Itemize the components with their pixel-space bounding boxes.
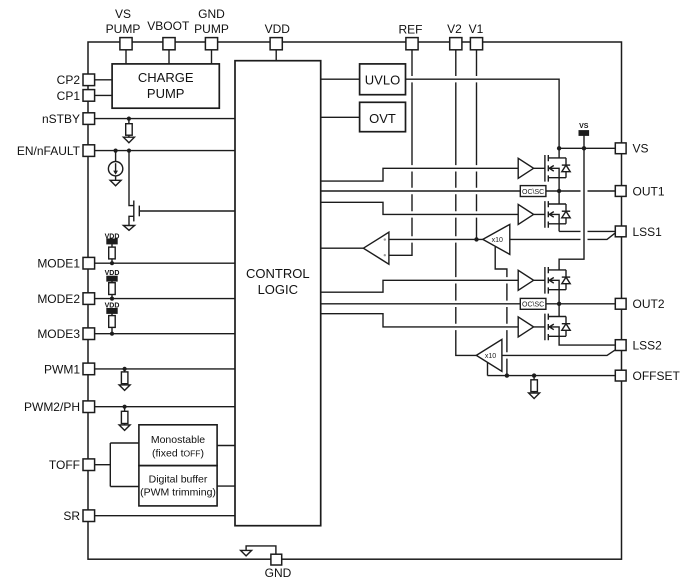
- mini VDD supply symbol MODE3: [107, 309, 117, 314]
- resistor PWM2 pulldown: [124, 407, 126, 412]
- MOSFET cells inserted here: [107, 131, 588, 372]
- pin SR: [83, 510, 95, 522]
- ground I1: [110, 180, 121, 186]
- svg-text:TOFF: TOFF: [49, 458, 80, 472]
- pin PWM1: [83, 363, 95, 375]
- wire VBOOT stub: [168, 50, 170, 64]
- pin MODE1: [83, 257, 95, 269]
- OC/SC block 2: [520, 298, 546, 309]
- wire OVT input: [321, 116, 360, 118]
- node nSTBY pulldown junction: [127, 117, 131, 121]
- op-amp driver LS2: [518, 317, 545, 337]
- wire CP2: [95, 79, 113, 81]
- resistor MODE2 pullup: [111, 281, 113, 283]
- pin VS PUMP: [120, 38, 132, 50]
- svg-text:x10: x10: [485, 353, 496, 360]
- node EN current source junction: [114, 149, 118, 153]
- wire HS1 source to OUT1: [558, 178, 560, 191]
- device outline border: [88, 42, 622, 559]
- wire MODE1: [95, 262, 235, 264]
- wire LSS2 sense line: [502, 350, 615, 355]
- wire comparator output: [321, 247, 364, 249]
- svg-text:x10: x10: [492, 237, 503, 244]
- svg-text:PWM2/PH: PWM2/PH: [24, 400, 80, 414]
- svg-text:OC\SC: OC\SC: [522, 189, 544, 196]
- pin nSTBY: [83, 113, 95, 125]
- monostable block: [139, 425, 217, 466]
- pin CP2: [83, 74, 95, 86]
- transistor EN pulldown FET: [129, 151, 134, 206]
- digital buffer block: [139, 466, 217, 506]
- pin OUT2: [615, 298, 626, 309]
- ground OFFSET resistor: [529, 393, 540, 399]
- pin LSS2: [615, 340, 626, 351]
- op-amp driver HS2: [518, 270, 545, 290]
- node OFFSET resistor junction: [532, 373, 536, 377]
- svg-text:VS: VS: [579, 123, 589, 130]
- pin MODE2: [83, 293, 95, 305]
- svg-text:UVLO: UVLO: [365, 72, 400, 87]
- wire LSS2 source line: [559, 336, 615, 345]
- svg-text:VS: VS: [633, 142, 649, 156]
- svg-text:PWM1: PWM1: [44, 362, 80, 376]
- wire HS2 source to OUT2: [558, 290, 560, 304]
- wire PWM2/PH: [95, 406, 235, 408]
- node x10-1 output V1 junction: [474, 237, 478, 241]
- op-amp driver LS1: [518, 204, 545, 224]
- UVLO block: [360, 64, 406, 95]
- svg-text:MODE2: MODE2: [37, 292, 80, 306]
- wire OFFSET line: [488, 375, 615, 377]
- svg-text:CP2: CP2: [57, 73, 81, 87]
- svg-text:MODE3: MODE3: [37, 327, 80, 341]
- pin VDD: [270, 38, 282, 50]
- svg-text:CP1: CP1: [57, 89, 81, 103]
- svg-text:REF: REF: [399, 23, 423, 37]
- svg-text:OFFSET: OFFSET: [633, 369, 681, 383]
- wire VS feed to half-bridge 2: [559, 135, 584, 270]
- wire x10-1 offset reference: [495, 247, 507, 376]
- current source I1: [115, 151, 117, 162]
- ground PWM1: [119, 385, 130, 391]
- node EN FET junction: [127, 149, 131, 153]
- svg-text:OUT2: OUT2: [633, 297, 665, 311]
- wire digital buffer output: [217, 485, 235, 487]
- pin CP1: [83, 90, 95, 102]
- transistor LS1 power MOSFET: [545, 201, 566, 228]
- wire UVLO output to VS node: [406, 79, 560, 148]
- svg-text:GND: GND: [265, 566, 292, 580]
- node VS-UVLO junction: [557, 146, 561, 150]
- wire HS1 drain: [558, 148, 560, 158]
- svg-text:OC\SC: OC\SC: [522, 302, 544, 309]
- op-amp current comparator: [363, 232, 389, 264]
- wire x10-1 output to comparator: [389, 238, 483, 240]
- wire LSS1 sense line: [510, 233, 615, 239]
- svg-text:OUT1: OUT1: [633, 184, 665, 198]
- node PWM1 pulldown junction: [123, 367, 127, 371]
- node VS feed junction: [582, 146, 586, 150]
- svg-text:CHARGE: CHARGE: [138, 70, 194, 85]
- mini VS supply symbol: [579, 131, 588, 135]
- pin OFFSET: [615, 370, 626, 381]
- wire VS node line: [559, 147, 615, 149]
- wire control to HS1 driver: [321, 168, 519, 181]
- ground PWM2: [119, 425, 130, 431]
- wire REF vertical: [389, 50, 412, 256]
- transistor HS1 power MOSFET: [545, 155, 566, 182]
- wire MODE2: [95, 298, 235, 300]
- pin EN/nFAULT: [83, 145, 95, 157]
- wire monostable output: [217, 445, 235, 447]
- pin GND PUMP: [205, 38, 217, 50]
- svg-text:SR: SR: [63, 509, 80, 523]
- svg-text:Digital buffer: Digital buffer: [149, 474, 208, 486]
- wire V2 vertical: [456, 50, 477, 356]
- svg-text:Monostable: Monostable: [151, 434, 205, 446]
- resistor PWM1 pulldown: [124, 369, 126, 372]
- wire OC/SC2 to OUT2: [546, 303, 615, 305]
- wire LS2 drain: [558, 304, 560, 317]
- wire OC/SC1 to OUT1: [546, 190, 615, 192]
- wire CP1: [95, 94, 113, 96]
- wire LSS1 source line: [559, 224, 615, 232]
- svg-text:PUMP: PUMP: [147, 86, 185, 101]
- ground EN FET: [123, 226, 134, 231]
- pin V1: [470, 38, 482, 50]
- mini VDD supply symbol MODE2: [107, 276, 117, 281]
- wire control to LS1 driver: [321, 202, 519, 214]
- transistor HS2 power MOSFET: [545, 267, 566, 294]
- pin LSS1: [615, 226, 626, 237]
- wire x10-2 offset reference: [487, 363, 489, 376]
- ground GND hook: [246, 546, 276, 554]
- svg-text:nSTBY: nSTBY: [42, 112, 80, 126]
- mini VDD supply symbol MODE1: [107, 239, 117, 244]
- svg-text:VBOOT: VBOOT: [147, 19, 190, 33]
- pin GND: [271, 554, 282, 565]
- svg-text:VDD: VDD: [105, 233, 120, 240]
- wire control to HS2 driver: [321, 280, 519, 292]
- pin MODE3: [83, 328, 95, 340]
- op-amp driver HS1: [518, 158, 545, 178]
- node OUT2 junction: [557, 302, 561, 306]
- op-amp x10 sense amplifier 2: [476, 339, 502, 371]
- svg-text:CONTROL: CONTROL: [246, 266, 310, 281]
- svg-text:LOGIC: LOGIC: [258, 282, 298, 297]
- wire SR: [95, 515, 235, 517]
- svg-text:(fixed tOFF): (fixed tOFF): [152, 448, 204, 460]
- ground nSTBY: [123, 137, 134, 143]
- pin PWM2/PH: [83, 401, 95, 413]
- OVT block: [360, 102, 406, 131]
- resistor MODE3 pullup: [111, 313, 113, 315]
- wire MODE3: [95, 333, 235, 335]
- pin VS: [615, 143, 626, 154]
- svg-text:MODE1: MODE1: [37, 257, 80, 271]
- svg-text:VDD: VDD: [105, 302, 120, 309]
- node MODE3 pullup junction: [110, 332, 114, 336]
- wire LS1 drain: [558, 191, 560, 204]
- control logic block: [235, 61, 321, 526]
- wire control to LS2 driver: [321, 314, 519, 327]
- node MODE2 pullup junction: [110, 297, 114, 301]
- node PWM2 pulldown junction: [123, 405, 127, 409]
- svg-text:LSS2: LSS2: [633, 339, 663, 353]
- node OUT1 junction: [557, 189, 561, 193]
- transistor LS2 power MOSFET: [545, 314, 566, 341]
- wire nSTBY: [95, 118, 235, 120]
- wire GND PUMP stub: [211, 50, 213, 64]
- svg-text:OVT: OVT: [369, 111, 396, 126]
- resistor MODE1 pullup: [111, 244, 113, 247]
- svg-text:(PWM trimming): (PWM trimming): [140, 486, 216, 498]
- svg-text:EN/nFAULT: EN/nFAULT: [17, 144, 81, 158]
- svg-text:GND: GND: [198, 7, 225, 21]
- charge pump block: [112, 64, 219, 108]
- resistor nSTBY pulldown: [128, 119, 130, 124]
- wire UVLO input: [321, 78, 360, 80]
- svg-text:PUMP: PUMP: [106, 22, 141, 36]
- svg-text:VDD: VDD: [265, 22, 291, 36]
- svg-text:VS: VS: [115, 7, 131, 21]
- svg-text:PUMP: PUMP: [194, 22, 229, 36]
- wire control to OC/SC2: [321, 303, 521, 305]
- op-amp x10 sense amplifier 1: [483, 224, 510, 254]
- pin VBOOT: [163, 38, 175, 50]
- wire VDD stub: [275, 50, 277, 61]
- pin TOFF: [83, 459, 95, 471]
- svg-text:V2: V2: [447, 22, 462, 36]
- resistor OFFSET to ground: [533, 376, 535, 380]
- wire V1 vertical: [476, 50, 478, 240]
- node OFFSET ref junction: [505, 373, 509, 377]
- wire PWM1: [95, 368, 235, 370]
- wire EN/nFAULT: [95, 150, 235, 152]
- OC/SC block 1: [520, 186, 546, 197]
- wire VS PUMP stub: [125, 50, 127, 64]
- svg-text:V1: V1: [469, 22, 484, 36]
- wire control to OC/SC1: [321, 190, 521, 192]
- node MODE1 pullup junction: [110, 261, 114, 265]
- wire TOFF fork: [95, 464, 111, 466]
- pin REF: [406, 38, 418, 50]
- pin V2: [450, 38, 462, 50]
- pin OUT1: [615, 186, 626, 197]
- svg-text:LSS1: LSS1: [633, 225, 663, 239]
- svg-text:VDD: VDD: [105, 270, 120, 277]
